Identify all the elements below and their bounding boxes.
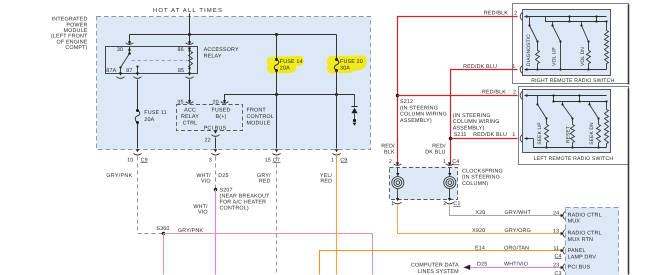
svg-text:VOL UP: VOL UP: [552, 47, 558, 66]
svg-text:(IN STEERING: (IN STEERING: [453, 113, 491, 119]
wire to relay pin 86: [189, 35, 191, 42]
connector relay pin 87: [136, 73, 139, 76]
clockspring coil right: [449, 168, 451, 176]
connector clockspring pin 1 bottom: [396, 198, 399, 201]
wire YEL/RED run: [336, 154, 338, 275]
svg-text:LEFT REMOTE RADIO SWITCH: LEFT REMOTE RADIO SWITCH: [534, 156, 614, 162]
svg-text:HOT AT ALL TIMES: HOT AT ALL TIMES: [153, 7, 223, 14]
connector FCM pin 22: [214, 131, 217, 134]
relay actuator dashed link: [132, 60, 188, 62]
splice S207: [214, 188, 217, 191]
svg-text:MODULE: MODULE: [247, 121, 271, 127]
switch VOL DN: [581, 22, 583, 26]
right switch rail B: [546, 17, 607, 22]
clockspring box: [390, 168, 458, 200]
radio box: [566, 208, 619, 275]
connector left switch pin 2: [520, 92, 522, 100]
right switch rail stub 2: [596, 17, 598, 22]
connector IPM pin 15 C7: [275, 149, 278, 152]
svg-text:(IN STEERING: (IN STEERING: [400, 105, 438, 111]
splice S360: [162, 232, 165, 235]
svg-text:ACC: ACC: [184, 107, 196, 113]
highlight fuse 14: [267, 56, 304, 74]
svg-text:1: 1: [512, 132, 515, 138]
switch DIAGNOSTIC: [529, 17, 531, 26]
svg-text:CONTROL: CONTROL: [247, 114, 274, 120]
svg-text:S212: S212: [400, 99, 413, 105]
svg-text:DK BLU: DK BLU: [425, 149, 445, 155]
wire fuse 20 to junction: [336, 71, 338, 95]
wire fuse14 to IPM exit 15: [276, 95, 278, 149]
svg-text:S211: S211: [454, 132, 467, 138]
right switch bottom rail: [525, 69, 607, 71]
node junction fuse14 bottom: [275, 93, 278, 96]
connector IPM pin 1 C9: [335, 149, 338, 152]
svg-text:20: 20: [213, 99, 219, 105]
switch RESET: [562, 102, 564, 105]
wire RED/BLK right switch: [398, 17, 518, 165]
right remote radio switch inner box: [523, 10, 611, 76]
left switch bottom rail: [534, 139, 607, 148]
svg-text:FUSE 11: FUSE 11: [144, 110, 167, 116]
svg-text:RADIO CTRL: RADIO CTRL: [568, 231, 602, 237]
svg-text:RELAY: RELAY: [181, 114, 199, 120]
svg-text:20A: 20A: [144, 117, 154, 123]
svg-text:VOL DN: VOL DN: [580, 47, 586, 66]
resistor left fixed: [606, 102, 608, 110]
wire relay 85 to FCM 35: [189, 80, 191, 101]
right switch top rail: [525, 16, 607, 18]
resistor seek dn: [597, 125, 601, 143]
switch SEEK UP: [537, 96, 539, 105]
svg-text:SEEK UP: SEEK UP: [537, 122, 543, 144]
steering wheel boundary line right edge: [628, 166, 630, 275]
wire fuse20 to IPM exit 1: [336, 95, 338, 149]
connector IPM pin 10 C9: [136, 149, 139, 152]
svg-text:ASSEMBLY): ASSEMBLY): [453, 125, 485, 131]
svg-text:(IN STEERING: (IN STEERING: [462, 175, 500, 181]
svg-text:VIO: VIO: [198, 209, 208, 215]
svg-text:C1: C1: [453, 201, 460, 207]
connector relay pin 30: [128, 41, 131, 44]
svg-text:RED/BLK: RED/BLK: [484, 10, 508, 16]
svg-text:86: 86: [178, 47, 184, 53]
svg-text:COMPUTER DATA: COMPUTER DATA: [411, 263, 459, 269]
wire GRY/RED dashed run: [276, 157, 278, 275]
connector radio pin 24: [563, 212, 565, 220]
svg-text:E14: E14: [475, 245, 485, 251]
highlight fuse 20: [327, 55, 367, 73]
wire RED/DK-BLU right switch: [451, 70, 518, 165]
wire D25 WHT/VIO pci: [464, 267, 563, 269]
svg-text:X920: X920: [472, 228, 485, 234]
svg-text:1: 1: [331, 158, 334, 164]
svg-text:RELAY: RELAY: [204, 54, 222, 60]
wire FCM 22 to IPM exit: [215, 138, 217, 149]
connector relay pin 87A: [119, 73, 122, 76]
wire WHT/VIO to bottom: [215, 190, 217, 275]
wire to relay pin 30: [129, 35, 131, 42]
splice S211: [449, 137, 452, 140]
svg-text:1: 1: [391, 201, 394, 207]
FCM box: [177, 105, 243, 131]
svg-text:DIAGNOSTIC: DIAGNOSTIC: [526, 34, 532, 66]
svg-text:2: 2: [514, 10, 517, 16]
wire X920 GRY/ORG: [398, 206, 563, 234]
connector FCM pin 35: [188, 100, 191, 103]
ground arrow: [353, 123, 357, 126]
relay pin 87A stub: [120, 68, 122, 73]
svg-text:MUX RTN: MUX RTN: [568, 237, 594, 243]
svg-text:LAMP DRV: LAMP DRV: [568, 254, 597, 260]
integrated power module box (IPM): [97, 17, 371, 150]
resistor right fixed: [606, 22, 608, 31]
svg-text:85: 85: [178, 68, 184, 74]
right remote radio switch outer box: [513, 4, 629, 84]
wire top bus to fuse 20: [336, 35, 338, 60]
connector radio pin 13: [563, 230, 565, 238]
svg-text:87A: 87A: [106, 68, 116, 74]
resistor reset: [571, 125, 575, 143]
wire 3 dashed segment: [215, 157, 217, 189]
wire ORG/TAN riser: [320, 251, 563, 275]
relay pin 87 contact: [136, 65, 138, 67]
svg-text:C3: C3: [555, 271, 562, 275]
switch SEEK DN: [589, 102, 591, 105]
svg-text:87: 87: [126, 68, 132, 74]
connector relay pin 85: [188, 73, 191, 76]
svg-text:CLOCKSPRING: CLOCKSPRING: [462, 168, 503, 174]
svg-text:RIGHT REMOTE RADIO SWITCH: RIGHT REMOTE RADIO SWITCH: [531, 78, 614, 84]
connector clockspring pin 2 top: [396, 162, 399, 165]
node rail B right end: [605, 20, 607, 22]
svg-text:D25: D25: [477, 262, 487, 268]
svg-text:1: 1: [512, 64, 515, 70]
left switch rail B: [554, 101, 607, 103]
wire RED/BLK left switch: [398, 95, 518, 97]
left switch rail stub 2: [579, 96, 581, 102]
svg-text:22: 22: [205, 137, 211, 143]
svg-text:ORG/TAN: ORG/TAN: [504, 245, 529, 251]
connector relay pin 86: [188, 41, 191, 44]
wire vol dn to rail: [588, 64, 590, 70]
wire relay 87 to fuse 11: [137, 80, 139, 110]
svg-text:VIO: VIO: [201, 178, 211, 184]
svg-text:RED/DK BLU: RED/DK BLU: [463, 64, 497, 70]
splice S212: [396, 94, 399, 97]
resistor diagnostic: [536, 51, 540, 64]
connector right switch pin 2: [520, 13, 522, 21]
svg-text:10: 10: [127, 158, 133, 164]
svg-text:RED/BLK: RED/BLK: [482, 90, 506, 96]
fuse F11: [135, 111, 140, 123]
diode D1: [352, 106, 358, 108]
right switch rail stub 1: [569, 17, 571, 22]
wire top bus: [130, 34, 337, 36]
left switch rail stub 1: [553, 96, 555, 102]
resistor seek up: [545, 125, 549, 143]
connector clockspring pin 2 bottom: [448, 198, 451, 201]
svg-text:RED/DK BLU: RED/DK BLU: [473, 132, 507, 138]
wire fused b+ feed: [225, 95, 337, 101]
wire seek dn to rail: [598, 143, 600, 148]
svg-text:13: 13: [553, 229, 559, 235]
svg-text:B(+): B(+): [216, 114, 227, 120]
svg-text:LINES SYSTEM: LINES SYSTEM: [418, 269, 459, 275]
connector radio pin 23: [563, 264, 565, 272]
connector radio pin 11: [563, 247, 565, 255]
svg-text:GRY/ORG: GRY/ORG: [505, 228, 531, 234]
wire X20 GRY/WHT: [450, 206, 563, 216]
svg-text:COLUMN WIRING: COLUMN WIRING: [400, 112, 447, 118]
wire diag to rail: [537, 64, 539, 70]
node diode ground dot: [353, 119, 356, 122]
wire 10 dashed segment: [138, 157, 163, 234]
left switch top rail: [525, 95, 607, 97]
clockspring coil left: [397, 168, 399, 176]
wire hot feed vertical: [189, 14, 191, 35]
svg-text:2: 2: [389, 159, 392, 165]
fuse F20: [334, 60, 339, 71]
node left rail B right end: [605, 100, 607, 102]
svg-text:24: 24: [553, 210, 559, 216]
relay box: [106, 47, 198, 74]
svg-text:15: 15: [265, 158, 271, 164]
svg-text:ASSEMBLY): ASSEMBLY): [400, 118, 432, 124]
svg-text:FUSE 20: FUSE 20: [340, 59, 363, 65]
node junction top bus / relay 86: [188, 33, 191, 36]
svg-text:GRY/PNK: GRY/PNK: [106, 173, 132, 179]
svg-text:COMPT): COMPT): [65, 45, 87, 51]
wire GRY/PNK horizontal: [164, 234, 373, 275]
svg-text:3: 3: [209, 158, 212, 164]
wire seek up to rail: [546, 143, 548, 148]
svg-text:CONTROL): CONTROL): [220, 206, 249, 212]
wire reset to rail: [572, 143, 574, 148]
svg-text:COLUMN WIRING: COLUMN WIRING: [453, 119, 500, 125]
svg-text:COLUMN): COLUMN): [462, 181, 488, 187]
fuse F14: [274, 60, 279, 71]
svg-text:2: 2: [513, 90, 516, 96]
relay coil: [189, 47, 191, 51]
left remote radio switch inner box: [523, 90, 611, 153]
svg-text:RED: RED: [259, 178, 271, 184]
svg-text:PCI BUS: PCI BUS: [568, 264, 591, 270]
svg-text:MUX: MUX: [568, 219, 581, 225]
connector right switch pin 1: [520, 66, 522, 74]
svg-text:30: 30: [117, 47, 123, 53]
node junction fuse20 bottom: [335, 93, 338, 96]
svg-text:35: 35: [177, 99, 183, 105]
svg-text:11: 11: [553, 246, 559, 252]
svg-text:RADIO CTRL: RADIO CTRL: [568, 212, 602, 218]
svg-text:S360: S360: [156, 226, 169, 232]
connector left switch pin 1: [520, 135, 522, 143]
svg-text:30A: 30A: [340, 65, 350, 71]
svg-text:FUSED: FUSED: [211, 107, 230, 113]
svg-text:PANEL: PANEL: [568, 248, 586, 254]
svg-text:CTRL: CTRL: [183, 121, 198, 127]
svg-text:2: 2: [443, 201, 446, 207]
wire top bus to fuse 14: [276, 35, 278, 60]
left remote radio switch outer box: [519, 87, 629, 165]
wire fuse 11 to IPM exit: [137, 123, 139, 149]
svg-text:SEEK DN: SEEK DN: [589, 122, 595, 145]
svg-text:ACCESSORY: ACCESSORY: [204, 47, 239, 53]
wire to diode: [337, 95, 355, 107]
svg-text:X20: X20: [475, 210, 485, 216]
connector IPM pin 3: [214, 149, 217, 152]
svg-text:D25: D25: [218, 173, 228, 179]
connector FCM pin 20: [223, 100, 226, 103]
wire RED/DK-BLU left switch: [451, 138, 518, 140]
svg-text:BLK: BLK: [384, 149, 395, 155]
svg-text:S207: S207: [220, 187, 233, 193]
wire fuse 14 to junction: [276, 71, 278, 95]
connector clockspring pin 1 top: [448, 162, 451, 165]
svg-text:RESET: RESET: [565, 126, 571, 143]
switch VOL UP: [552, 22, 554, 26]
svg-text:FRONT: FRONT: [247, 107, 267, 113]
node junction top bus / fuse 14: [275, 33, 278, 36]
svg-text:GRY/WHT: GRY/WHT: [505, 210, 532, 216]
svg-text:23: 23: [553, 262, 559, 268]
svg-text:RED: RED: [320, 178, 332, 184]
relay switch arm: [129, 47, 131, 53]
svg-text:20A: 20A: [280, 65, 290, 71]
svg-text:WHT/VIO: WHT/VIO: [504, 262, 528, 268]
resistor vol dn: [587, 51, 591, 64]
svg-text:FUSE 14: FUSE 14: [280, 59, 303, 65]
wire GRY/PNK down: [163, 234, 165, 275]
